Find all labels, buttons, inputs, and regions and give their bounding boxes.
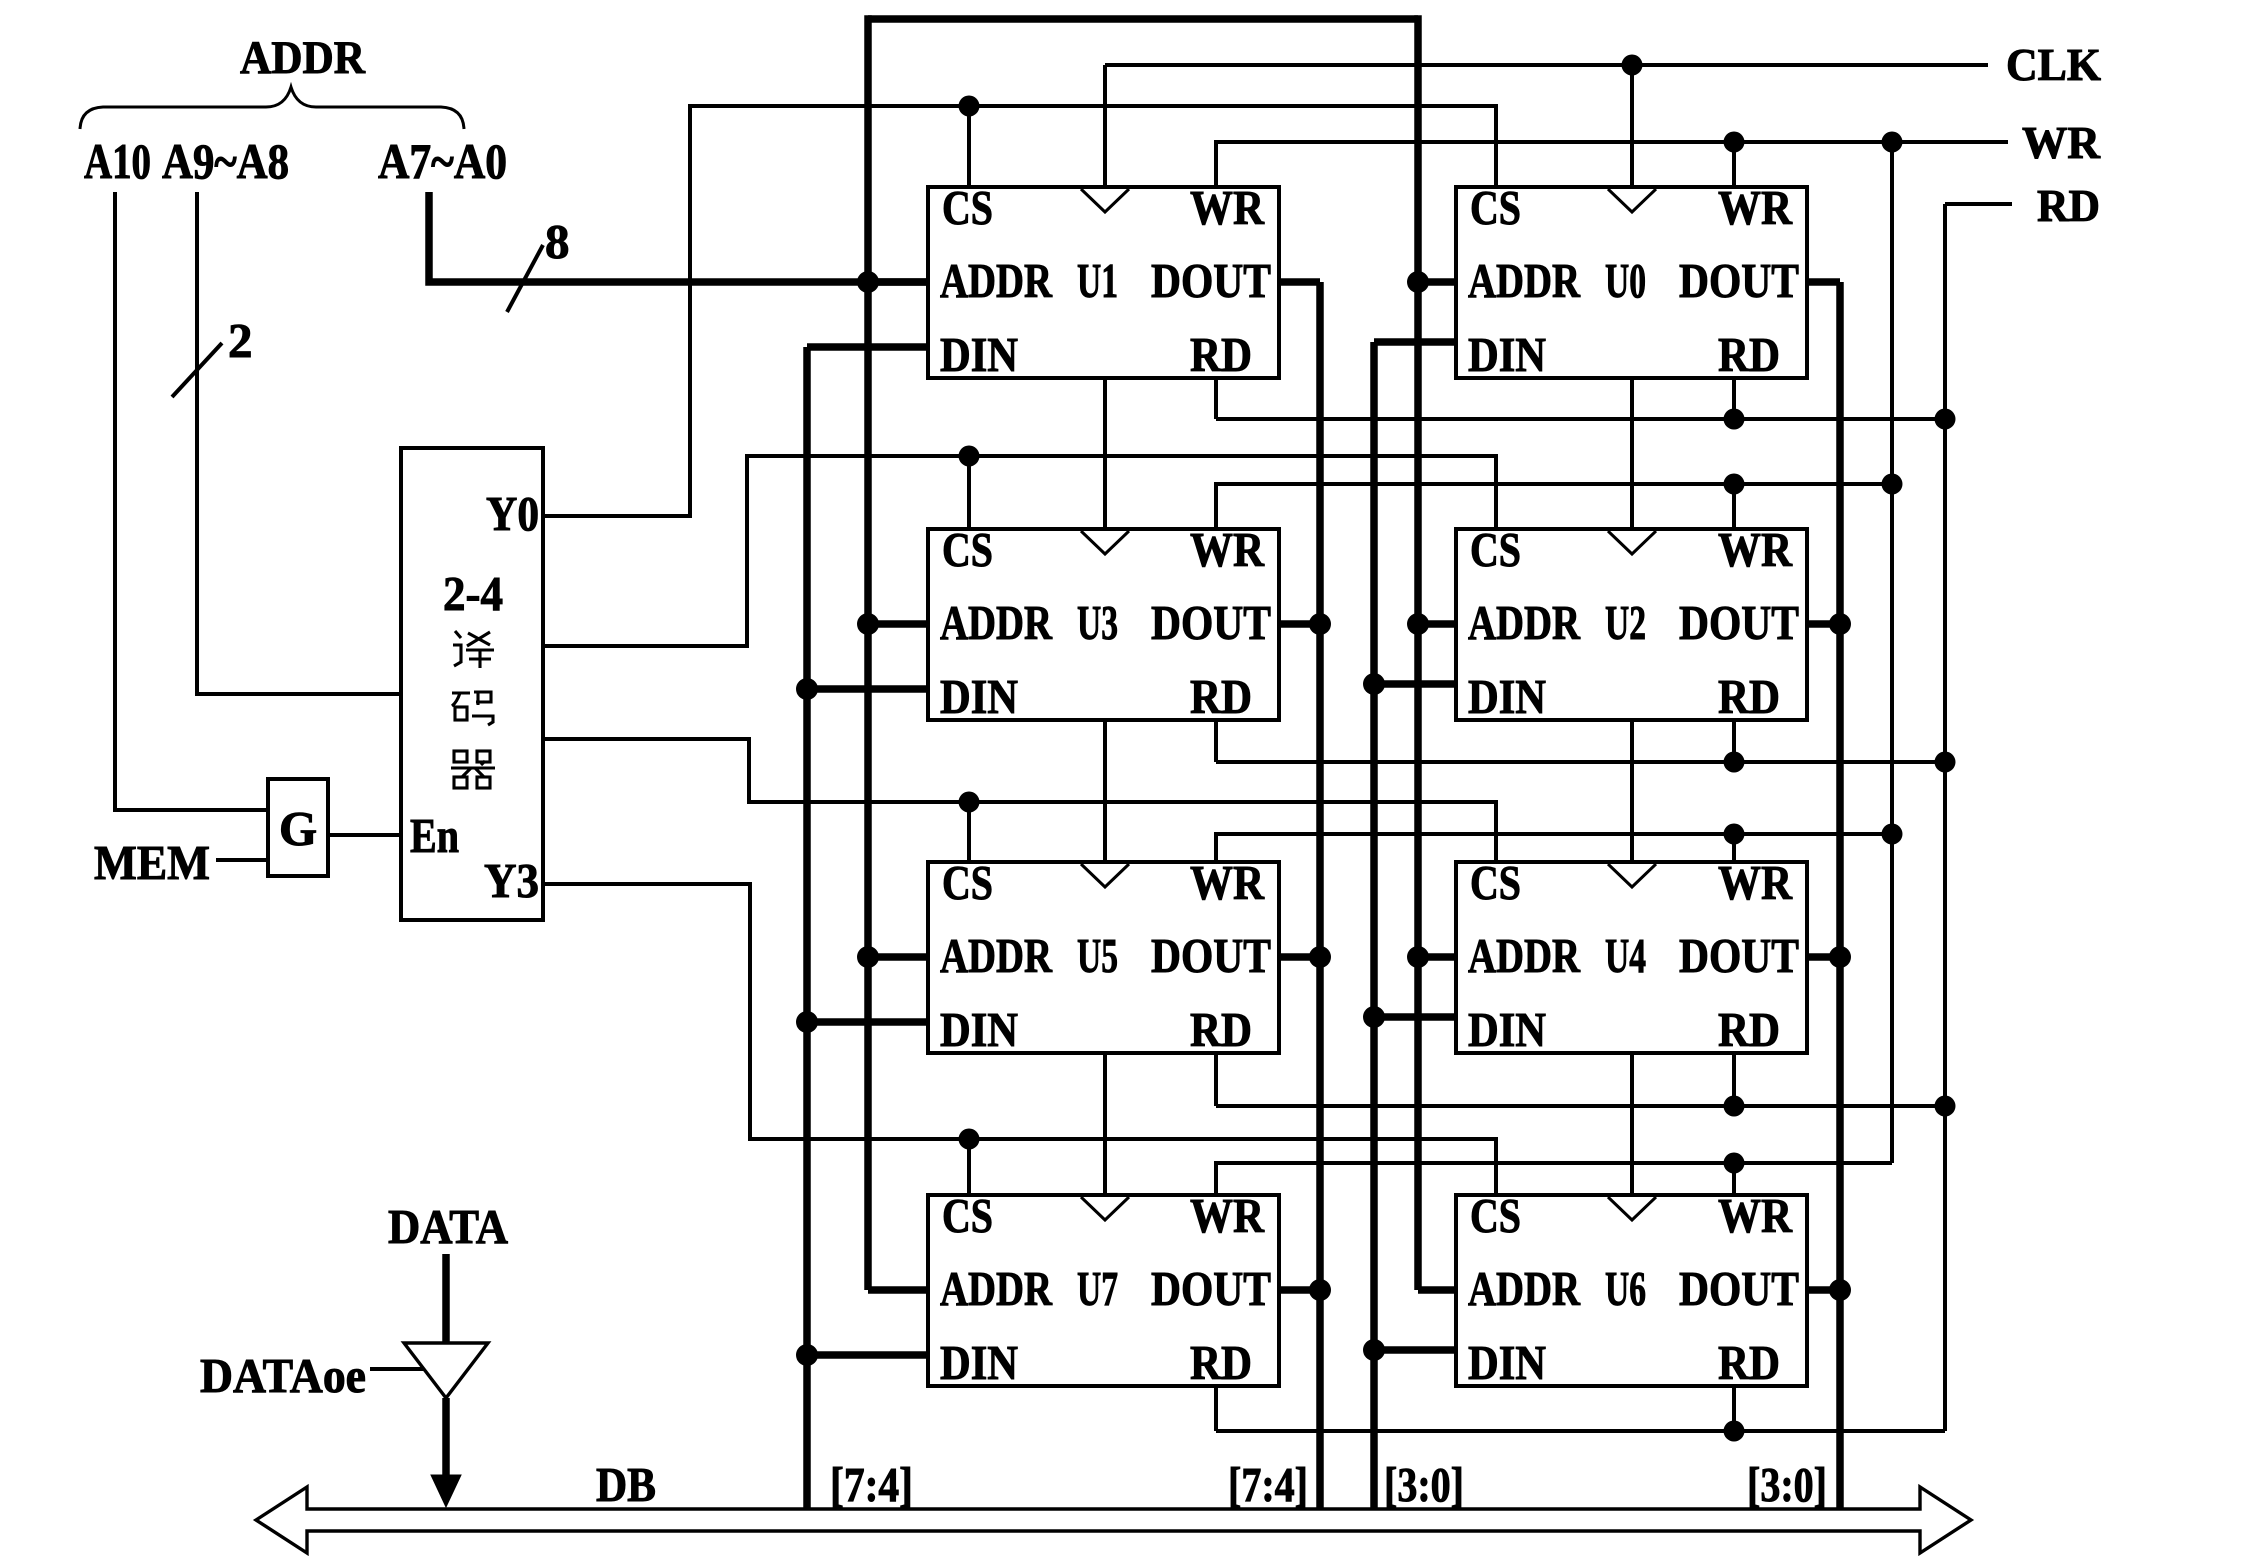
svg-text:ADDR: ADDR — [940, 1261, 1052, 1316]
svg-text:U4: U4 — [1605, 928, 1646, 983]
svg-text:WR: WR — [1190, 1188, 1265, 1243]
svg-text:CS: CS — [942, 180, 993, 235]
svg-text:ADDR: ADDR — [1468, 253, 1580, 308]
svg-text:WR: WR — [2022, 117, 2101, 168]
svg-text:Y0: Y0 — [486, 486, 539, 541]
svg-text:DIN: DIN — [940, 669, 1018, 724]
svg-text:CS: CS — [1470, 1188, 1521, 1243]
svg-text:DB: DB — [596, 1457, 656, 1512]
svg-text:CS: CS — [942, 1188, 993, 1243]
svg-text:RD: RD — [1718, 327, 1780, 382]
svg-text:U3: U3 — [1077, 595, 1118, 650]
svg-text:DIN: DIN — [1468, 1335, 1546, 1390]
svg-text:DOUT: DOUT — [1151, 253, 1271, 308]
svg-text:WR: WR — [1718, 855, 1793, 910]
svg-text:RD: RD — [1190, 327, 1252, 382]
svg-text:DOUT: DOUT — [1679, 1261, 1799, 1316]
svg-text:DIN: DIN — [940, 1002, 1018, 1057]
svg-text:WR: WR — [1190, 522, 1265, 577]
svg-text:DOUT: DOUT — [1151, 1261, 1271, 1316]
svg-text:U1: U1 — [1077, 253, 1118, 308]
svg-text:RD: RD — [1718, 1335, 1780, 1390]
svg-text:CLK: CLK — [2006, 39, 2101, 90]
svg-text:RD: RD — [1718, 669, 1780, 724]
svg-text:2: 2 — [228, 313, 253, 368]
svg-text:A9~A8: A9~A8 — [162, 133, 289, 189]
svg-text:DOUT: DOUT — [1679, 253, 1799, 308]
svg-text:DIN: DIN — [1468, 669, 1546, 724]
svg-text:DIN: DIN — [940, 327, 1018, 382]
svg-text:RD: RD — [1190, 669, 1252, 724]
svg-text:[3:0]: [3:0] — [1747, 1457, 1827, 1512]
svg-text:[3:0]: [3:0] — [1384, 1457, 1464, 1512]
svg-text:DATA: DATA — [388, 1199, 509, 1254]
svg-text:DOUT: DOUT — [1151, 928, 1271, 983]
svg-text:DATAoe: DATAoe — [200, 1348, 366, 1403]
svg-text:RD: RD — [1718, 1002, 1780, 1057]
svg-text:[7:4]: [7:4] — [830, 1457, 913, 1512]
svg-text:ADDR: ADDR — [940, 928, 1052, 983]
svg-text:[7:4]: [7:4] — [1228, 1457, 1308, 1512]
svg-text:WR: WR — [1718, 522, 1793, 577]
svg-text:U6: U6 — [1605, 1261, 1646, 1316]
svg-text:WR: WR — [1718, 1188, 1793, 1243]
svg-text:2-4: 2-4 — [443, 566, 503, 621]
svg-text:DIN: DIN — [1468, 1002, 1546, 1057]
svg-text:WR: WR — [1718, 180, 1793, 235]
svg-text:ADDR: ADDR — [940, 253, 1052, 308]
svg-text:U5: U5 — [1077, 928, 1118, 983]
svg-text:RD: RD — [1190, 1335, 1252, 1390]
svg-text:CS: CS — [1470, 180, 1521, 235]
svg-text:A7~A0: A7~A0 — [378, 133, 507, 189]
svg-text:WR: WR — [1190, 180, 1265, 235]
svg-text:DIN: DIN — [1468, 327, 1546, 382]
svg-text:U7: U7 — [1077, 1261, 1118, 1316]
svg-text:ADDR: ADDR — [1468, 1261, 1580, 1316]
svg-text:G: G — [279, 801, 317, 856]
svg-text:WR: WR — [1190, 855, 1265, 910]
svg-text:U2: U2 — [1605, 595, 1646, 650]
svg-text:RD: RD — [2037, 180, 2100, 231]
svg-text:A10: A10 — [84, 133, 151, 189]
svg-text:8: 8 — [545, 214, 570, 269]
svg-text:DOUT: DOUT — [1679, 595, 1799, 650]
svg-text:CS: CS — [1470, 855, 1521, 910]
svg-text:MEM: MEM — [94, 835, 210, 890]
svg-text:ADDR: ADDR — [240, 32, 366, 84]
svg-text:DOUT: DOUT — [1679, 928, 1799, 983]
svg-text:CS: CS — [942, 855, 993, 910]
svg-text:CS: CS — [1470, 522, 1521, 577]
svg-text:RD: RD — [1190, 1002, 1252, 1057]
svg-text:Y3: Y3 — [484, 853, 539, 908]
svg-text:U0: U0 — [1605, 253, 1646, 308]
svg-text:En: En — [410, 808, 459, 863]
svg-text:ADDR: ADDR — [1468, 595, 1580, 650]
svg-text:DOUT: DOUT — [1151, 595, 1271, 650]
svg-text:ADDR: ADDR — [1468, 928, 1580, 983]
svg-text:ADDR: ADDR — [940, 595, 1052, 650]
svg-text:DIN: DIN — [940, 1335, 1018, 1390]
svg-text:CS: CS — [942, 522, 993, 577]
